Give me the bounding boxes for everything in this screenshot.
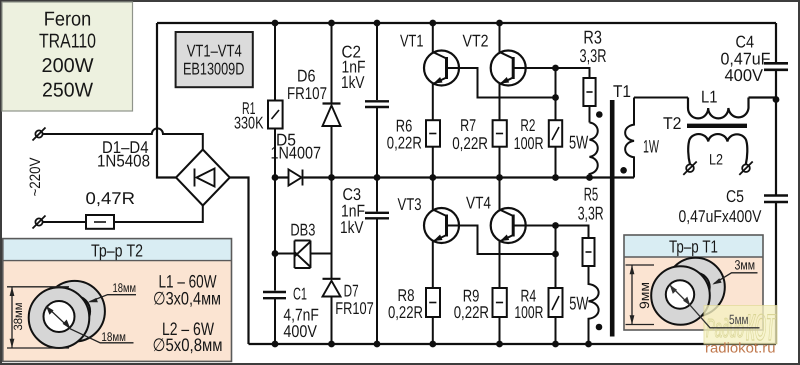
watermark script Radio	[706, 313, 744, 343]
svg-text:Feron: Feron	[44, 8, 92, 30]
wire VT1 collector	[432, 23, 434, 52]
label 400V lower left	[283, 322, 317, 341]
wire bridge minus to bottom rail corner	[230, 178, 249, 345]
label L1	[701, 87, 718, 106]
wire right edge top segment	[775, 23, 777, 62]
svg-text:0,47R: 0,47R	[86, 189, 136, 208]
svg-text:1N4007: 1N4007	[271, 144, 322, 163]
phase dot T1 upper	[596, 111, 603, 118]
bridge diode symbol	[195, 169, 215, 187]
resistor R6	[426, 120, 440, 177]
watermark radiokot.ru	[705, 340, 776, 356]
svg-text:9мм: 9мм	[637, 282, 652, 309]
junction dots base network	[552, 65, 559, 258]
label R5	[584, 183, 599, 204]
label R4 100R	[514, 303, 543, 322]
label DB3	[290, 220, 315, 239]
transformer T1 core	[610, 100, 615, 337]
label R6	[396, 117, 413, 136]
svg-text:VT4: VT4	[466, 194, 491, 213]
label D5	[276, 131, 296, 150]
junction dots middle rail	[272, 174, 593, 181]
label D1-D4	[102, 138, 149, 157]
label 0,47uF	[721, 49, 771, 68]
svg-text:18мм: 18мм	[113, 281, 137, 295]
label R3 3,3R	[580, 45, 607, 66]
label 4,7nF	[283, 305, 319, 324]
svg-text:R5: R5	[584, 183, 599, 204]
transistor VT1	[424, 51, 459, 86]
svg-text:1kV: 1kV	[341, 73, 365, 92]
capacitor C4	[764, 63, 788, 70]
label C3	[343, 185, 362, 204]
svg-text:400V: 400V	[283, 322, 317, 341]
label R9 0,22R	[454, 303, 489, 322]
toroid T2 front ring	[29, 287, 90, 348]
svg-text:0,22R: 0,22R	[388, 303, 423, 322]
wire base link upper	[555, 68, 557, 120]
svg-text:D7: D7	[344, 282, 359, 301]
label R5 3,3R	[578, 203, 604, 224]
label VT2	[463, 31, 489, 50]
label 0,47R	[86, 189, 136, 208]
resistor R9	[493, 288, 507, 344]
capacitor C3	[365, 178, 389, 345]
wire bottom rail	[249, 343, 777, 345]
dimension 38mm	[7, 287, 69, 348]
info box VT1-VT4 EB13009D	[176, 32, 253, 87]
wire VT2 base to R3	[526, 68, 590, 78]
transistor VT2	[491, 51, 526, 86]
label ~220V	[27, 158, 44, 197]
diode D6	[323, 23, 341, 178]
toroid T1 front ring	[651, 266, 710, 325]
svg-text:R2: R2	[520, 116, 535, 135]
transformer T1 primary winding upper	[590, 123, 598, 178]
wire DB3 branch	[275, 253, 332, 255]
label T1	[613, 82, 631, 101]
label 1N5408	[97, 152, 150, 171]
info box transformer T1 winding data	[624, 235, 763, 330]
label FR107	[287, 84, 327, 103]
svg-text:1W: 1W	[643, 136, 659, 156]
svg-text:Тр–р T2: Тр–р T2	[91, 241, 143, 261]
label VT4	[466, 194, 491, 213]
svg-text:3,3R: 3,3R	[578, 203, 604, 224]
junction dot right edge	[773, 96, 780, 103]
svg-text:L2: L2	[709, 151, 723, 168]
toroid T1 back ring	[666, 258, 725, 317]
svg-text:D6: D6	[297, 67, 316, 86]
svg-text:38мм: 38мм	[11, 303, 25, 331]
watermark tint box	[704, 306, 777, 345]
label 330K	[234, 114, 264, 133]
label VT1	[400, 31, 424, 50]
svg-text:R7: R7	[460, 116, 476, 135]
label R9	[463, 287, 480, 306]
svg-text:5W: 5W	[569, 132, 589, 153]
svg-text:EB13009D: EB13009D	[183, 60, 245, 79]
wire input bottom left	[43, 221, 87, 223]
svg-text:200W: 200W	[42, 55, 94, 77]
svg-text:0,47uFx400V: 0,47uFx400V	[679, 207, 763, 226]
resistor R8	[426, 288, 440, 344]
svg-text:5W: 5W	[569, 293, 589, 314]
label C2	[342, 43, 362, 62]
label C5	[726, 187, 744, 206]
label winding wire 5x0,8mm	[153, 335, 223, 355]
svg-text:100R: 100R	[514, 303, 543, 322]
output terminal L2 right	[739, 162, 752, 175]
junction dots diac branch	[272, 250, 279, 257]
label R8	[398, 286, 415, 305]
wire right edge middle segment	[775, 70, 777, 195]
info box Feron TRA110 200W 250W	[2, 2, 133, 111]
label FR107 lower	[335, 299, 374, 318]
transistor VT4	[491, 208, 526, 243]
dimension 18mm hole diameter	[46, 306, 134, 343]
wire VT4 emitter	[499, 242, 501, 288]
label 3mm	[735, 258, 756, 273]
wire VT4 base to R5	[526, 226, 589, 239]
svg-text:T1: T1	[613, 82, 631, 101]
label 1W	[643, 136, 659, 156]
svg-text:C1: C1	[293, 284, 307, 303]
resistor R7	[493, 120, 507, 177]
label 38mm	[11, 303, 25, 331]
label D6	[297, 67, 316, 86]
wire input top with hop	[43, 128, 203, 149]
label 1nF lower	[341, 202, 365, 221]
wire middle rail	[275, 176, 634, 178]
diac DB3	[295, 241, 311, 269]
label 18mm upper	[113, 281, 137, 295]
label 9mm	[637, 282, 652, 309]
svg-text:VT1–VT4: VT1–VT4	[187, 42, 242, 61]
info box transformer T2 winding data	[3, 239, 232, 362]
svg-text:100R: 100R	[514, 134, 544, 153]
wire VT2 collector	[499, 23, 501, 52]
input terminal top	[33, 128, 46, 141]
capacitor C2	[365, 23, 389, 178]
label 400V	[725, 66, 764, 85]
label L2	[709, 151, 723, 168]
label 1kV lower	[340, 218, 364, 237]
wire VT4 collector	[499, 178, 501, 210]
svg-text:0,22R: 0,22R	[454, 303, 489, 322]
dimension 5mm	[670, 285, 760, 328]
label 18mm lower	[101, 330, 126, 344]
dimension 9mm	[626, 265, 655, 325]
svg-text:330K: 330K	[234, 114, 264, 133]
svg-text:FR107: FR107	[335, 299, 374, 318]
label 5W upper	[569, 132, 589, 153]
resistor R4	[549, 288, 563, 344]
wire VT3 base	[459, 226, 556, 255]
wire L1 to right edge	[749, 96, 777, 98]
wire VT3 collector	[432, 178, 434, 210]
svg-text:L1: L1	[701, 87, 718, 106]
resistor R1	[268, 23, 283, 178]
wire right edge bottom segment	[775, 202, 777, 344]
wire input bottom to bridge	[114, 206, 203, 223]
transformer T2 core	[687, 124, 747, 128]
svg-text:~220V: ~220V	[27, 158, 44, 197]
wire top rail	[157, 22, 776, 24]
svg-text:1kV: 1kV	[340, 218, 364, 237]
label R7 0,22R	[452, 134, 488, 153]
label R1	[242, 99, 256, 118]
capacitor C1	[263, 178, 286, 345]
svg-text:VT3: VT3	[398, 195, 422, 214]
svg-text:18мм: 18мм	[101, 330, 126, 344]
resistor R3	[583, 78, 595, 123]
watermark KOT	[746, 307, 776, 348]
label R3	[583, 27, 602, 48]
svg-text:1N5408: 1N5408	[97, 152, 150, 171]
transistor VT3	[424, 208, 459, 243]
wire VT1 emitter	[432, 84, 434, 120]
label D7	[344, 282, 359, 301]
wire left frame drop to bridge	[157, 23, 178, 178]
dimension 3mm	[712, 273, 757, 285]
input terminal bottom	[33, 216, 46, 229]
label 5mm	[729, 312, 749, 327]
svg-text:VT2: VT2	[463, 31, 489, 50]
label T2	[663, 114, 682, 133]
inductor L1	[688, 98, 749, 119]
resistor R5	[583, 238, 595, 266]
label L2 6W	[162, 319, 214, 339]
bridge rectifier D1-D4 diamond	[176, 150, 230, 206]
svg-text:C5: C5	[726, 187, 744, 206]
label R8 0,22R	[388, 303, 423, 322]
resistor 0,47R	[86, 215, 114, 229]
toroid T2 back ring	[44, 281, 105, 342]
svg-text:5мм: 5мм	[729, 312, 749, 327]
svg-text:0,22R: 0,22R	[452, 134, 488, 153]
svg-text:radiokot.ru: radiokot.ru	[705, 340, 776, 356]
svg-text:T2: T2	[663, 114, 682, 133]
phase dot T1 lower	[596, 324, 603, 331]
label R6 0,22R	[387, 134, 422, 153]
svg-text:DB3: DB3	[290, 220, 315, 239]
label R7	[460, 116, 476, 135]
wire VT2 emitter	[499, 84, 501, 120]
label C1	[293, 284, 307, 303]
svg-text:∅5x0,8мм: ∅5x0,8мм	[153, 335, 223, 355]
junction dots bottom rail	[272, 341, 592, 348]
junction dots top rail	[272, 20, 503, 27]
svg-text:3,3R: 3,3R	[580, 45, 607, 66]
wire VT1 base	[459, 68, 556, 98]
svg-text:0,22R: 0,22R	[387, 134, 422, 153]
svg-text:FR107: FR107	[287, 84, 327, 103]
output terminal L2 left	[683, 162, 696, 175]
wire VT3 emitter	[432, 242, 434, 288]
label R2 100R	[514, 134, 544, 153]
label 1nF upper	[342, 58, 366, 77]
label R2	[520, 116, 535, 135]
label VT3	[398, 195, 422, 214]
label 1N4007	[271, 144, 322, 163]
wire base link lower	[555, 226, 557, 288]
transformer T1 feedback winding 1W	[625, 98, 634, 178]
label R4	[521, 287, 537, 306]
capacitor C5	[764, 196, 788, 203]
svg-text:250W: 250W	[42, 79, 93, 101]
diode D5	[289, 170, 303, 186]
label 0,47uFx400V	[679, 207, 763, 226]
svg-text:400V: 400V	[725, 66, 764, 85]
svg-text:3мм: 3мм	[735, 258, 756, 273]
svg-text:TRA110: TRA110	[39, 31, 96, 53]
label 5W lower	[569, 293, 589, 314]
label 1kV upper	[341, 73, 365, 92]
transformer T1 primary winding lower	[589, 266, 599, 344]
label winding wire 3x0,4mm	[153, 289, 221, 309]
phase dot T1 feedback	[620, 167, 627, 174]
resistor R2	[549, 120, 562, 177]
label L1 60W	[159, 271, 217, 291]
inductor L2 secondary	[688, 134, 747, 164]
wire feedback to L1	[634, 97, 688, 99]
svg-text:VT1: VT1	[400, 31, 424, 50]
diode D7	[323, 178, 341, 345]
label C4	[736, 33, 755, 52]
svg-text:∅3x0,4мм: ∅3x0,4мм	[153, 289, 221, 309]
svg-text:Тр–р T1: Тр–р T1	[669, 236, 718, 256]
dimension 18mm ring width	[88, 295, 136, 303]
